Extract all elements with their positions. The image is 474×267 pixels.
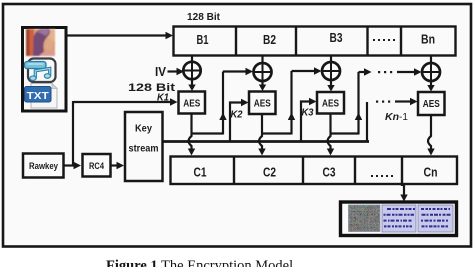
- svg-text:C2: C2: [263, 165, 276, 180]
- svg-text:AES: AES: [423, 98, 440, 110]
- svg-text:B2: B2: [263, 32, 276, 47]
- svg-text:RC4: RC4: [89, 161, 105, 172]
- svg-text:128 Bit: 128 Bit: [187, 12, 221, 23]
- svg-text:K3: K3: [302, 107, 314, 119]
- svg-text:Bn: Bn: [421, 32, 435, 47]
- svg-text:AES: AES: [254, 98, 271, 110]
- svg-text:Cn: Cn: [424, 165, 438, 180]
- svg-text:Figure 1 The Encryption Model: Figure 1 The Encryption Model: [106, 258, 293, 267]
- svg-text:AES: AES: [183, 98, 200, 110]
- svg-text:C1: C1: [194, 165, 207, 180]
- svg-text:Rawkey: Rawkey: [29, 161, 59, 172]
- svg-text:B3: B3: [330, 30, 343, 45]
- svg-text:IV: IV: [155, 65, 167, 79]
- svg-text:K2: K2: [231, 109, 243, 121]
- svg-text:Kn: Kn: [385, 111, 399, 123]
- svg-text:B1: B1: [197, 32, 209, 47]
- svg-text:-1: -1: [399, 112, 408, 123]
- svg-text:AES: AES: [322, 98, 339, 110]
- svg-text:C3: C3: [323, 165, 336, 180]
- svg-text:stream: stream: [129, 144, 159, 155]
- svg-text:TXT: TXT: [27, 91, 49, 102]
- svg-text:Key: Key: [135, 124, 152, 135]
